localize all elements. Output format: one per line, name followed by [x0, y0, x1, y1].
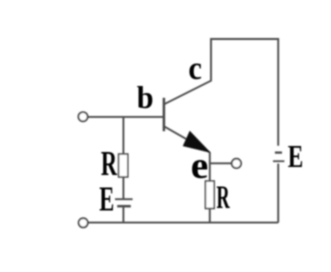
- svg-text:e: e: [191, 145, 209, 187]
- svg-text:b: b: [137, 79, 154, 115]
- svg-text:c: c: [188, 51, 202, 87]
- svg-text:E: E: [99, 180, 114, 219]
- svg-text:R: R: [216, 180, 230, 216]
- svg-text:R: R: [101, 144, 118, 183]
- svg-text:E: E: [288, 138, 304, 174]
